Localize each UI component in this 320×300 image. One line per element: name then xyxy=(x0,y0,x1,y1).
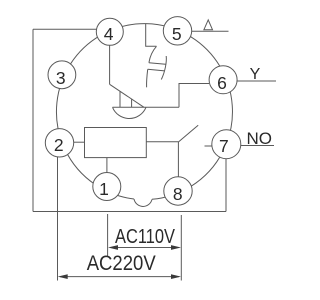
pin 2 xyxy=(45,129,73,157)
escapement vertical 1 xyxy=(119,91,121,107)
svg-text:1: 1 xyxy=(99,179,109,199)
dimension line AC220V xyxy=(60,276,179,278)
escapement diagonal xyxy=(110,84,144,107)
svg-text:4: 4 xyxy=(104,24,114,44)
clutch symbol bar 2 xyxy=(148,69,165,71)
wire pin5 output delta xyxy=(192,30,229,32)
switch contact stub pin7 xyxy=(205,145,212,147)
wire riser to pin6 xyxy=(179,84,209,108)
arrow AC110V right xyxy=(171,245,181,250)
escapement base wire to riser xyxy=(113,106,180,108)
escapement vertical 2 xyxy=(131,99,133,108)
clutch symbol right arc xyxy=(161,56,166,80)
svg-text:7: 7 xyxy=(219,136,229,156)
clutch symbol left arc xyxy=(149,46,157,62)
arrow AC110V left xyxy=(108,245,118,250)
svg-text:5: 5 xyxy=(172,24,182,44)
svg-text:AC110V: AC110V xyxy=(115,226,176,248)
pin 1 xyxy=(93,173,121,201)
keyway notch xyxy=(134,199,152,206)
svg-text:Y: Y xyxy=(250,66,261,83)
wire drop from top arc xyxy=(146,24,157,47)
svg-text:AC220V: AC220V xyxy=(87,252,156,275)
relay coil box xyxy=(85,128,147,158)
wire pin6 output Y xyxy=(237,80,276,82)
wire pin4 drop xyxy=(109,45,111,84)
pin circles xyxy=(45,17,241,206)
arrow AC220V right xyxy=(171,274,181,279)
clutch symbol left tail xyxy=(147,69,148,87)
pin 3 xyxy=(48,61,76,89)
dimension tick left AC110V xyxy=(107,214,109,257)
svg-text:3: 3 xyxy=(56,68,66,88)
arrowheads xyxy=(58,245,181,279)
svg-text:NO: NO xyxy=(247,129,273,148)
wire pin2 down to AC220V xyxy=(57,157,59,281)
socket outline circle xyxy=(56,24,232,200)
wire pivot to pin8 xyxy=(177,142,179,177)
pin 7 xyxy=(212,130,241,159)
pin 6 xyxy=(209,66,237,94)
enclosure left edge xyxy=(32,29,34,211)
svg-text:2: 2 xyxy=(54,135,64,155)
dimension tick right xyxy=(180,215,182,281)
svg-text:6: 6 xyxy=(217,73,227,93)
wire pin7 output NO xyxy=(241,145,274,147)
wire coil to pin1 xyxy=(106,158,108,173)
switch blade xyxy=(178,125,198,142)
pin 5 xyxy=(163,17,191,45)
svg-text:8: 8 xyxy=(173,184,183,204)
dimension line AC110V xyxy=(110,247,179,249)
clutch symbol bar 1 xyxy=(149,63,166,65)
enclosure right edge xyxy=(225,159,227,212)
wire pin2 to coil xyxy=(74,141,85,143)
arrow AC220V left xyxy=(58,274,68,279)
enclosure bottom edge xyxy=(33,211,226,213)
enclosure top edge xyxy=(33,28,97,30)
pin 8 xyxy=(164,177,192,205)
pin 4 xyxy=(96,18,123,45)
delta triangle symbol xyxy=(204,20,213,30)
wire coil to switch pivot xyxy=(146,141,178,143)
escapement dome xyxy=(113,107,147,118)
